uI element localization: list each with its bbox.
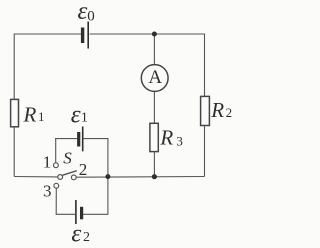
svg-text:ε: ε [71,101,81,128]
wire middle horizontal right of switch [76,176,204,179]
switch S blade [62,171,77,176]
wire switch contact1 to E1 branch [55,139,57,163]
svg-text:3: 3 [176,133,183,148]
svg-text:2: 2 [226,105,233,120]
battery E1 short plate [77,132,80,147]
switch pivot contact circle [58,175,63,180]
svg-text:A: A [148,67,162,88]
switch contact 1 circle [54,163,59,168]
svg-text:2: 2 [83,230,90,245]
wire middle horizontal left of switch [14,176,58,178]
wire E1 branch left horizontal [55,138,77,140]
wire ammeter branch upper [153,34,155,65]
svg-text:2: 2 [79,160,88,179]
wire switch contact3 to E2 branch [56,188,75,214]
wire top-right segment [90,34,205,177]
wire R3 to middle node [153,152,155,177]
wire E1 branch right horizontal and drop [84,139,108,177]
svg-text:R: R [23,102,37,126]
wire E2 branch right segment [83,177,108,215]
switch contact 3 circle [54,183,59,188]
node junction dot top [152,32,157,37]
node junction dot E-branch [105,174,110,179]
resistor R3 body [150,123,158,151]
svg-text:S: S [63,148,72,167]
switch contact 2 circle [71,175,76,180]
wire top-left segment [14,34,81,177]
wire ammeter to R3 [153,92,155,124]
svg-text:0: 0 [87,8,95,24]
battery E0 long plate [87,22,89,49]
svg-text:1: 1 [81,111,88,126]
svg-text:ε: ε [78,0,88,25]
svg-text:ε: ε [71,221,81,248]
svg-text:1: 1 [43,153,52,172]
ammeter U1 circle [141,65,168,92]
battery E2 long plate [75,200,77,224]
svg-text:R: R [159,126,173,150]
resistor R2 body [201,96,210,125]
svg-text:3: 3 [43,182,52,201]
battery E1 long plate [82,127,84,152]
battery E2 short plate [80,207,83,220]
resistor R1 body [11,99,19,126]
node junction dot R3 bottom [152,174,157,179]
svg-text:R: R [210,98,224,122]
battery E0 short plate [81,28,84,44]
svg-text:1: 1 [38,109,45,124]
